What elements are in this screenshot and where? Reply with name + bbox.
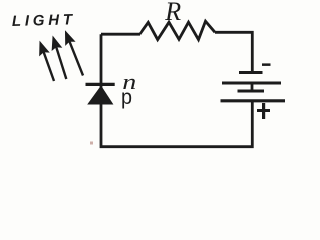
svg-text:p: p <box>121 86 132 109</box>
svg-text:R: R <box>164 0 181 26</box>
svg-text:LIGHT: LIGHT <box>12 11 76 30</box>
